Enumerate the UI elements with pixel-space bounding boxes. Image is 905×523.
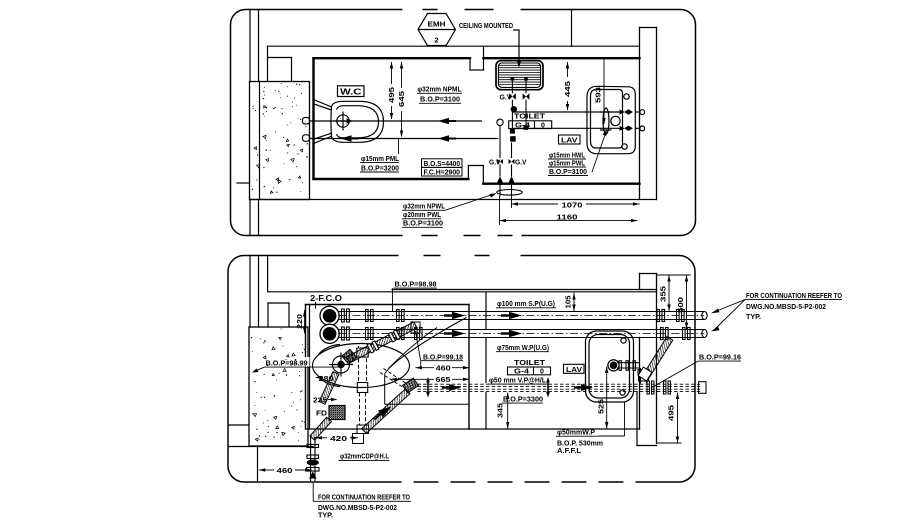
svg-text:500: 500 <box>676 297 685 313</box>
svg-text:TYP.: TYP. <box>746 312 761 321</box>
svg-text:235: 235 <box>313 398 327 405</box>
svg-text:F.C.H=2900: F.C.H=2900 <box>424 169 461 176</box>
svg-text:LAV: LAV <box>566 365 583 374</box>
svg-text:525: 525 <box>597 398 606 414</box>
svg-text:FOR CONTINUATION REEFER TO: FOR CONTINUATION REEFER TO <box>318 493 410 502</box>
svg-text:EMH: EMH <box>428 20 446 29</box>
svg-text:TOILET: TOILET <box>514 358 545 367</box>
svg-text:G.V: G.V <box>515 159 527 166</box>
svg-text:B.O.P=3100: B.O.P=3100 <box>403 219 443 228</box>
svg-text:φ100 mm S.P(U.G): φ100 mm S.P(U.G) <box>497 299 555 308</box>
svg-text:B.O.P=98.98: B.O.P=98.98 <box>395 279 437 288</box>
svg-text:φ32mmCDP@H.L: φ32mmCDP@H.L <box>340 452 389 461</box>
svg-text:460: 460 <box>277 466 293 475</box>
svg-text:FOR CONTINUATION REEFER TO: FOR CONTINUATION REEFER TO <box>746 291 842 300</box>
svg-text:TYP.: TYP. <box>318 511 333 520</box>
svg-text:495: 495 <box>387 86 396 103</box>
svg-text:2: 2 <box>434 36 438 45</box>
svg-text:B.O.P=3100: B.O.P=3100 <box>549 169 587 176</box>
svg-text:420: 420 <box>330 434 347 443</box>
svg-text:FD: FD <box>316 411 327 418</box>
svg-text:B.O.P=3200: B.O.P=3200 <box>361 163 399 172</box>
svg-text:593: 593 <box>594 87 603 103</box>
svg-text:TOILET: TOILET <box>514 112 545 121</box>
svg-text:φ15mm HWL: φ15mm HWL <box>549 152 586 159</box>
svg-text:665: 665 <box>436 375 452 384</box>
svg-text:220: 220 <box>295 314 304 329</box>
svg-text:B.O.P=99.18: B.O.P=99.18 <box>423 353 463 362</box>
svg-text:B.O.P. 530mm: B.O.P. 530mm <box>557 440 603 447</box>
svg-text:2-F.C.O: 2-F.C.O <box>310 293 342 303</box>
svg-text:B.O.P=3100: B.O.P=3100 <box>420 95 460 104</box>
svg-text:CEILING MOUNTED: CEILING MOUNTED <box>459 21 513 30</box>
svg-text:LAV: LAV <box>561 136 579 145</box>
svg-text:φ50 mm V.P@H/L: φ50 mm V.P@H/L <box>489 375 546 384</box>
svg-text:345: 345 <box>496 402 505 418</box>
svg-text:W.C: W.C <box>340 87 362 97</box>
svg-text:G.V: G.V <box>489 159 501 166</box>
svg-text:645: 645 <box>397 90 406 107</box>
svg-text:φ32mm NPML: φ32mm NPML <box>418 85 462 94</box>
svg-text:1070: 1070 <box>562 200 583 209</box>
svg-text:280: 280 <box>319 374 334 383</box>
svg-text:B.O.P=99.16: B.O.P=99.16 <box>699 352 741 361</box>
svg-text:355: 355 <box>659 285 668 302</box>
svg-text:DWG.NO.MBSD-5-P2-002: DWG.NO.MBSD-5-P2-002 <box>746 302 826 311</box>
svg-text:φ15mm PML: φ15mm PML <box>361 154 399 163</box>
svg-text:445: 445 <box>563 80 572 97</box>
svg-text:φ75mm W.P(U.G): φ75mm W.P(U.G) <box>497 343 549 352</box>
svg-text:G.V: G.V <box>500 95 512 102</box>
svg-text:1160: 1160 <box>557 213 578 222</box>
svg-text:460: 460 <box>436 364 451 373</box>
svg-text:φ50mmW.P: φ50mmW.P <box>557 430 595 437</box>
svg-text:105: 105 <box>566 295 573 308</box>
svg-text:A.F.F.L: A.F.F.L <box>557 448 582 455</box>
svg-text:B.O.P=98.99: B.O.P=98.99 <box>266 358 308 367</box>
svg-text:B.O.S=4400: B.O.S=4400 <box>424 161 461 168</box>
svg-text:φ15mm PWL: φ15mm PWL <box>549 160 586 167</box>
svg-text:495: 495 <box>667 404 676 421</box>
